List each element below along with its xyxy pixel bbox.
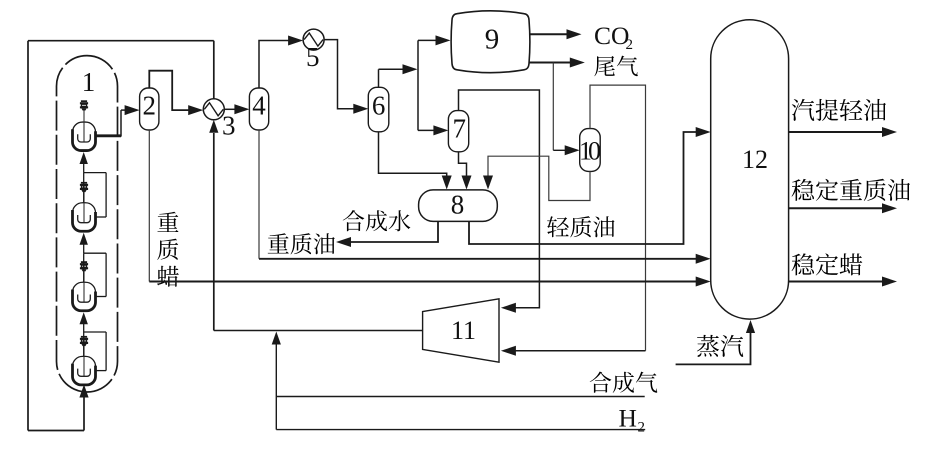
wire cell 4 to cell 3 [80, 312, 107, 370]
wire recycle riser into exchanger 3 [209, 120, 218, 331]
label 7 [453, 114, 467, 144]
vessel 9 [451, 11, 530, 73]
wire vessel 10 bottoms light oil [483, 156, 590, 200]
exchanger 5 [303, 29, 324, 50]
svg-text:6: 6 [372, 91, 386, 121]
stirred cell 3 in reactor 1 [73, 271, 96, 310]
label 3 [222, 111, 236, 141]
wire reactor loop top [28, 40, 214, 42]
wire exchanger 3 top to loop [213, 41, 215, 99]
wire vessel 8 oil to column feed [469, 127, 711, 244]
spray nozzle above cell 1 [80, 100, 88, 110]
label 11 [451, 316, 476, 345]
label 合成气 [590, 372, 658, 393]
wire compressor discharge [214, 330, 423, 332]
wire gas header to vessel 9 [418, 35, 451, 45]
label 10 [579, 137, 601, 166]
svg-text:8: 8 [451, 190, 465, 220]
wire reactor feed riser with arrow [79, 385, 88, 431]
spray nozzle above cell 2 [80, 182, 88, 192]
wire cell 3 to cell 2 [80, 233, 107, 297]
svg-text:H: H [619, 404, 637, 433]
wire vessel 7 bottoms to vessel 8 [459, 152, 472, 190]
wire vessel 4 bottoms [258, 130, 260, 259]
wire reactor loop bottom [28, 430, 84, 432]
wire vessel 6 bottoms to vessel 8 [379, 132, 452, 190]
stirred cell 2 in reactor 1 [73, 192, 96, 231]
svg-text:2: 2 [143, 91, 157, 121]
svg-text:2: 2 [638, 420, 646, 436]
column 12 [711, 20, 789, 319]
svg-text:1: 1 [82, 67, 96, 97]
label H2 [619, 404, 646, 436]
vessel 4 [249, 88, 268, 130]
label 5 [306, 42, 320, 72]
spray nozzle above cell 4 [80, 336, 88, 346]
wire tail gas [530, 58, 585, 68]
svg-text:11: 11 [451, 316, 476, 345]
wire heavy oil product [789, 203, 897, 213]
exchanger 3 [203, 99, 224, 120]
label 汽提轻油 [792, 99, 886, 121]
spray nozzle above cell 3 [80, 261, 88, 271]
label 重质油 [268, 233, 335, 254]
wire vessel 2 overhead to exchanger 3 [149, 71, 203, 115]
wire vessel 4 bottoms to column [259, 254, 711, 264]
wire exchanger 5 to vessel 6 [324, 40, 368, 114]
wire vessel 2 bottoms heavy wax [148, 130, 150, 282]
vessel 10 [580, 129, 601, 172]
wire vessel 8 water drain heavy oil out [336, 221, 438, 247]
wire CO2 offgas [530, 29, 582, 39]
vessel 8 [419, 190, 498, 222]
reactor vessel 1 shell (dashed capsule) [57, 56, 118, 392]
label 12 [742, 145, 768, 174]
wire vessel 10 overhead to compressor suction [501, 85, 646, 356]
label 合成水 [343, 210, 411, 231]
svg-text:10: 10 [579, 137, 601, 166]
svg-text:12: 12 [742, 145, 768, 174]
wire cell 1 outlet to vessel 2 [96, 105, 140, 137]
label 8 [451, 190, 465, 220]
label 轻质油 [547, 216, 614, 237]
label 尾气 [594, 56, 637, 77]
label 蒸汽 [697, 335, 743, 357]
label 稳定蜡 [792, 253, 863, 275]
wire vessel 7 overhead to compressor suction [459, 90, 540, 313]
svg-text:4: 4 [252, 91, 266, 121]
label 4 [252, 91, 266, 121]
svg-text:7: 7 [453, 114, 467, 144]
svg-text:9: 9 [485, 24, 500, 56]
vessel 7 [448, 111, 468, 152]
wire gas header to vessel 7 [418, 125, 448, 135]
svg-text:5: 5 [306, 42, 320, 72]
wire steam to column [676, 320, 756, 364]
wire heavy wax to column [149, 277, 710, 287]
label 稳定重质油 [792, 179, 910, 201]
wire feed riser to recycle [272, 332, 281, 430]
wire hydrogen feed line [276, 429, 645, 431]
wire cell 2 to cell 1 [80, 152, 107, 217]
vessel 6 [368, 87, 389, 132]
compressor 11 [423, 299, 499, 362]
wire exchanger 3 to vessel 4 [224, 104, 249, 114]
stirred cell 1 in reactor 1 [73, 111, 96, 151]
label 2 [143, 91, 157, 121]
wire tail gas branch to vessel 10 [553, 63, 579, 156]
label 6 [372, 91, 386, 121]
svg-text:3: 3 [222, 111, 236, 141]
wire column overhead product [789, 127, 897, 137]
wire gas header vertical [417, 40, 419, 130]
label 9 [485, 24, 500, 56]
label 1 [82, 67, 96, 97]
wire stabilized wax product [789, 277, 897, 287]
wire vessel 6 overhead [379, 64, 418, 87]
label 重质蜡 [157, 212, 179, 287]
wire syngas feed line [276, 396, 644, 398]
wire reactor loop left [27, 41, 29, 431]
vessel 2 [140, 88, 159, 130]
stirred cell 4 in reactor 1 [73, 346, 96, 385]
svg-text:CO: CO [594, 21, 629, 50]
svg-text:2: 2 [626, 37, 634, 53]
wire vessel 4 overhead to exchanger 5 [259, 36, 303, 89]
label CO2 [594, 21, 633, 53]
